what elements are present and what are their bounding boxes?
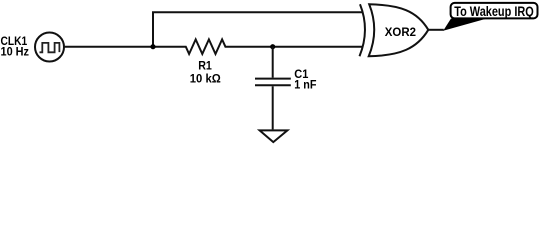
wire top branch node A up and over to XOR input A	[153, 12, 363, 47]
flag To Wakeup IRQ box	[451, 3, 538, 19]
clock source CLK1	[35, 33, 64, 62]
ground	[260, 130, 288, 142]
wire source to node A with resistor R1 zigzag, to XOR input B	[64, 39, 363, 54]
CLK1 square-wave glyph	[40, 43, 60, 52]
wire capacitor to ground	[272, 86, 274, 129]
XOR gate XOR2 extra input arc	[360, 4, 365, 56]
wire node B down to capacitor C1	[272, 47, 274, 78]
XOR gate XOR2 body	[369, 4, 429, 56]
svg-text:R1: R1	[198, 60, 212, 72]
wire XOR output	[428, 29, 444, 31]
node A junction dot	[150, 44, 155, 49]
svg-text:10 kΩ: 10 kΩ	[190, 74, 221, 86]
svg-text:10 Hz: 10 Hz	[1, 46, 30, 58]
node B junction dot	[270, 44, 275, 49]
svg-text:XOR2: XOR2	[385, 26, 417, 39]
flag pointer wedge	[443, 19, 487, 31]
svg-text:To Wakeup IRQ: To Wakeup IRQ	[454, 4, 534, 19]
capacitor C1 plates	[255, 79, 291, 86]
svg-text:1 nF: 1 nF	[294, 79, 316, 91]
